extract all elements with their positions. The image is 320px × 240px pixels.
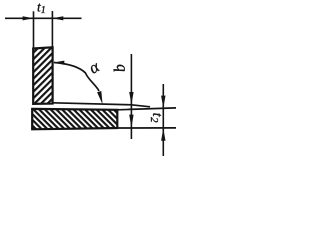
dimension line t2 (x=163.3) bbox=[162, 84, 164, 156]
arrow b down at line A bbox=[129, 92, 133, 105]
dimension line b (x=131.4) bbox=[130, 54, 132, 139]
dimension line t1 bbox=[5, 17, 82, 19]
arrow t1 left bbox=[23, 16, 34, 20]
arrow t2 down at line B bbox=[161, 96, 165, 109]
plate P1 (vertical plate, hatched) bbox=[33, 47, 52, 104]
plate P2 (horizontal plate, hatched) bbox=[32, 109, 117, 129]
line B: top face of plate P2 extended right bbox=[117, 108, 176, 110]
angle dimension arc (alpha) bbox=[54, 63, 99, 92]
arc arrow pointing down at line A bbox=[97, 91, 103, 105]
bottom face line extended right bbox=[117, 127, 176, 129]
arrow b down at bottom line bbox=[129, 115, 133, 128]
arrow t1 right bbox=[52, 16, 63, 20]
extension line left (t1, x=33.5) bbox=[33, 11, 35, 47]
line A: bottom face of plate P1 extended right bbox=[53, 103, 150, 107]
arrow t2 up at bottom line bbox=[161, 128, 165, 141]
extension line right (t1, x=52.4) bbox=[51, 11, 53, 47]
arc arrow at plate face bbox=[53, 61, 64, 65]
